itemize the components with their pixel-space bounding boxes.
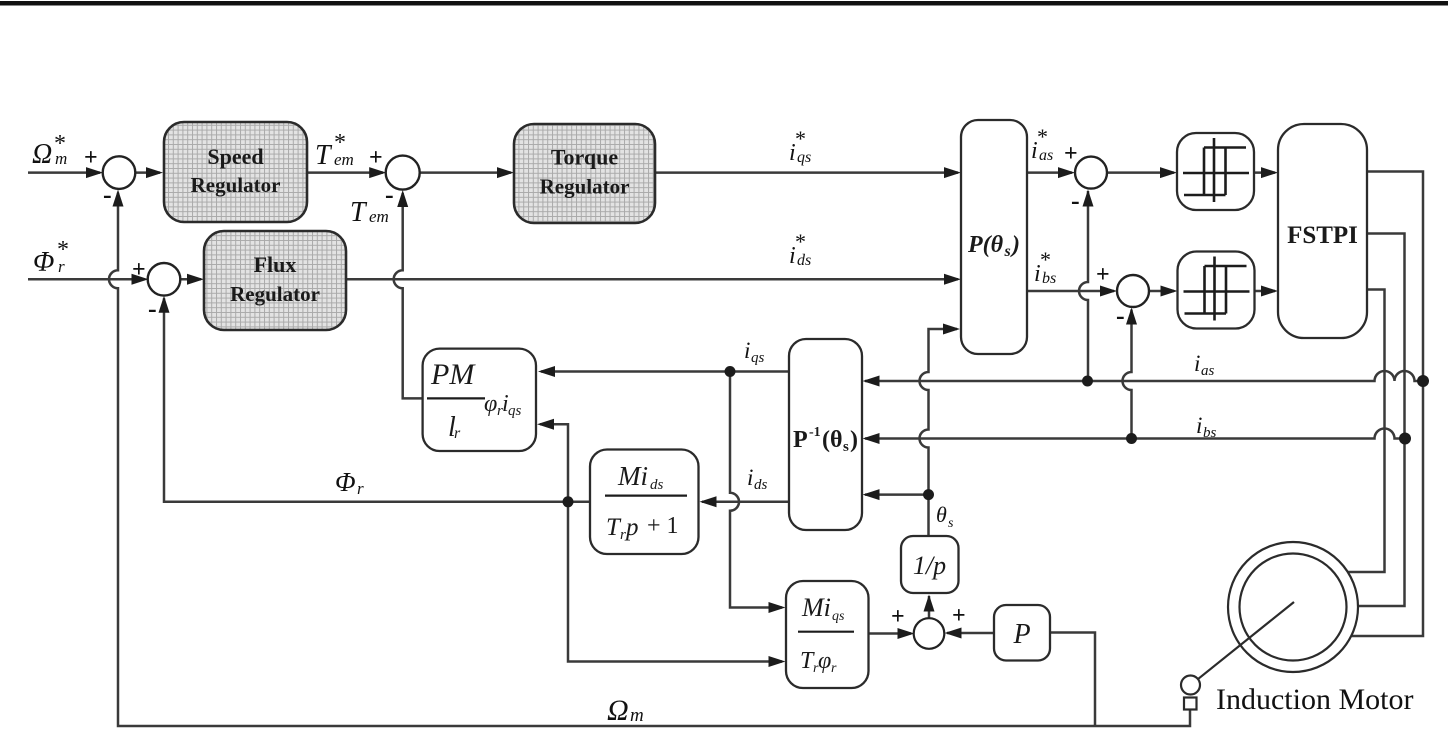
arrow theta-s into P-inv bbox=[863, 489, 880, 500]
svg-text:Speed: Speed bbox=[207, 144, 263, 169]
svg-text:Φ: Φ bbox=[33, 247, 54, 278]
wire FSTPI output 1 to motor bbox=[1350, 172, 1423, 637]
svg-text:+: + bbox=[132, 257, 146, 283]
wire speed regulator to sum2 bbox=[307, 171, 383, 174]
Miqs/(Tr phi-r) block bbox=[786, 581, 869, 688]
motor shaft bbox=[1198, 602, 1294, 679]
svg-text:s: s bbox=[1004, 243, 1011, 260]
svg-text:i: i bbox=[747, 465, 753, 490]
svg-text:qs: qs bbox=[751, 350, 765, 366]
wire sum-bs to hysteresis2 bbox=[1149, 290, 1174, 293]
svg-text:-: - bbox=[1116, 301, 1125, 330]
arrow ias-fb up into sum3 bbox=[1083, 190, 1094, 207]
svg-text:-: - bbox=[1071, 186, 1080, 215]
svg-text:*: * bbox=[795, 126, 806, 151]
wire sum1 to speed regulator bbox=[136, 171, 161, 174]
wire ibs feedback up to sum-bs with hop bbox=[1123, 310, 1132, 439]
junction dots bbox=[563, 366, 1430, 507]
wire flux regulator to P(theta-s) i-ds-star bbox=[346, 278, 958, 281]
wire sum4 to flux regulator bbox=[180, 278, 201, 281]
svg-text:p: p bbox=[624, 514, 639, 541]
summing junction sum2 bbox=[386, 156, 420, 190]
arrow ias into P-inv bbox=[863, 376, 880, 387]
svg-text:+: + bbox=[952, 603, 966, 629]
svg-text:*: * bbox=[1040, 247, 1051, 272]
node iqs bbox=[725, 366, 736, 377]
node theta-s bbox=[923, 489, 934, 500]
hysteresis comparator 1 bbox=[1177, 133, 1254, 210]
svg-text:ds: ds bbox=[650, 477, 664, 493]
arrow phi-r into Miqs block lower bbox=[769, 656, 786, 667]
svg-text:ds: ds bbox=[754, 477, 768, 493]
wire Tem feedback from PM block up to sum2 with hop bbox=[394, 193, 423, 398]
svg-text:Ω: Ω bbox=[32, 139, 52, 170]
arrow speed feedback up into sum1 bbox=[113, 190, 124, 207]
arrow into speed regulator bbox=[146, 167, 163, 178]
svg-text:*: * bbox=[1037, 124, 1048, 149]
svg-text:i: i bbox=[744, 338, 750, 363]
svg-text:s: s bbox=[843, 439, 849, 455]
wire ias feedback line with bumps bbox=[865, 371, 1423, 381]
svg-text:bs: bs bbox=[1203, 425, 1217, 441]
arrow into P(theta-s) middle bbox=[944, 274, 961, 285]
wire iqs from P-inv to PM block bbox=[541, 370, 789, 373]
arrow flux feedback up into sum4 bbox=[159, 296, 170, 313]
PM/lr block bbox=[423, 349, 536, 451]
svg-text:r: r bbox=[831, 661, 837, 676]
wire phi-r-star input bbox=[28, 278, 145, 281]
svg-text:+: + bbox=[1064, 141, 1078, 167]
arrow into sum-bs bbox=[1100, 286, 1117, 297]
svg-text:Flux: Flux bbox=[254, 252, 297, 277]
svg-text:+: + bbox=[84, 145, 98, 171]
arrow ibs into P-inv bbox=[863, 433, 880, 444]
svg-text:Mi: Mi bbox=[617, 461, 648, 491]
svg-text:r: r bbox=[357, 479, 364, 498]
svg-text:+: + bbox=[1096, 262, 1110, 288]
svg-text:bs: bs bbox=[1042, 270, 1056, 287]
arrow ibs-fb up into sum-bs bbox=[1126, 308, 1137, 325]
speed regulator block bbox=[164, 122, 307, 222]
svg-text:em: em bbox=[334, 150, 354, 169]
wire P block to sum5 bbox=[947, 632, 994, 635]
speed sensor square bbox=[1184, 698, 1197, 710]
P-inv(theta-s) block bbox=[789, 339, 862, 530]
summing junction sum4 flux bbox=[148, 263, 181, 296]
wire torque regulator to P(theta-s) i-qs-star bbox=[655, 171, 958, 174]
summing junction sum-bs bbox=[1117, 275, 1149, 307]
wire ias feedback up to sum3 with hop bbox=[1079, 191, 1088, 381]
P(theta-s) block U1 bbox=[961, 120, 1027, 354]
svg-text:ds: ds bbox=[797, 252, 811, 269]
wire ibs feedback line with bump bbox=[865, 429, 1405, 439]
arrow into flux regulator bbox=[187, 274, 204, 285]
arrow iqs into PM block bbox=[538, 366, 555, 377]
wire hysteresis2 to FSTPI bbox=[1255, 290, 1276, 293]
wire theta-s vertical from 1/p up to P(theta-s) with hops bbox=[920, 329, 958, 536]
svg-text:P: P bbox=[1012, 619, 1030, 650]
wire P(theta-s) to sum-bs i-bs-star bbox=[1027, 290, 1114, 293]
svg-text:i: i bbox=[1194, 351, 1200, 376]
wire omega-m-star input bbox=[28, 171, 100, 174]
arrow P into sum5 bbox=[945, 628, 962, 639]
arrow into P(theta-s) top bbox=[944, 167, 961, 178]
arrow into hysteresis1 bbox=[1160, 167, 1177, 178]
wire P(theta-s) to sum3 i-as-star bbox=[1027, 171, 1072, 174]
svg-text:r: r bbox=[454, 425, 461, 442]
arrow into sum1 bbox=[86, 167, 103, 178]
svg-text:-: - bbox=[385, 180, 394, 209]
arrow into FSTPI input1 bbox=[1261, 167, 1278, 178]
wire phi-r branch up into PM block bbox=[540, 424, 568, 502]
1/p block bbox=[901, 536, 959, 593]
svg-text:qs: qs bbox=[832, 609, 845, 624]
wire FSTPI output 2 to motor bbox=[1357, 234, 1405, 607]
svg-text:P(θ: P(θ bbox=[967, 232, 1004, 258]
svg-text:T: T bbox=[315, 140, 333, 171]
svg-text:i: i bbox=[1196, 413, 1202, 438]
arrow phi-r into PM block bbox=[537, 419, 554, 430]
svg-text:Φ: Φ bbox=[335, 467, 356, 497]
svg-text:+: + bbox=[891, 604, 905, 630]
wire hysteresis1 to FSTPI bbox=[1254, 171, 1275, 174]
svg-text:qs: qs bbox=[508, 403, 522, 419]
svg-text:m: m bbox=[55, 149, 67, 168]
svg-text:Torque: Torque bbox=[551, 145, 618, 170]
wire Omega-m from bottom line up into P block bbox=[1050, 633, 1095, 727]
summing junction sum3 as bbox=[1075, 157, 1107, 189]
svg-text:as: as bbox=[1201, 363, 1215, 379]
svg-text:-1: -1 bbox=[809, 425, 821, 440]
flux regulator block bbox=[204, 231, 346, 330]
node phi-r bbox=[563, 496, 574, 507]
arrow Tem up into sum2 bbox=[397, 190, 408, 207]
svg-text:s: s bbox=[948, 516, 954, 531]
arrow into 1/p bbox=[924, 595, 935, 612]
svg-text:*: * bbox=[795, 229, 806, 254]
arrowheads bbox=[86, 167, 1278, 667]
svg-text:(θ: (θ bbox=[822, 427, 843, 453]
wire theta-s branch into P-inv bbox=[865, 493, 929, 496]
wire flux feedback phi-r to sum4 bbox=[164, 298, 590, 502]
wire sum5 up to 1/p bbox=[928, 596, 931, 619]
arrow iqs into Miqs block upper bbox=[769, 602, 786, 613]
svg-text:+ 1: + 1 bbox=[647, 513, 679, 539]
summing junction sum5 bbox=[914, 618, 945, 649]
svg-text:m: m bbox=[630, 705, 644, 726]
svg-text:as: as bbox=[1039, 147, 1053, 164]
svg-text:Regulator: Regulator bbox=[191, 173, 281, 197]
svg-text:φ: φ bbox=[818, 648, 831, 674]
svg-text:PM: PM bbox=[430, 358, 476, 391]
wire FSTPI output 3 to motor bbox=[1348, 290, 1385, 573]
svg-text:-: - bbox=[148, 294, 157, 323]
arrow into hysteresis2 bbox=[1161, 286, 1178, 297]
Mids/(Trp+1) block bbox=[590, 450, 699, 555]
wire speed feedback bottom run and up to sum1 with hop bbox=[109, 193, 1190, 726]
wire ids from P-inv to Mids block bbox=[702, 501, 789, 504]
wire Miqs output to sum5 bbox=[869, 632, 912, 635]
arrow theta-s into P(theta-s) bottom bbox=[943, 324, 960, 335]
svg-text:Mi: Mi bbox=[801, 593, 831, 622]
summing junction sum1 bbox=[103, 156, 136, 189]
torque regulator block bbox=[514, 124, 655, 223]
node ias tap bbox=[1082, 376, 1093, 387]
arrow into sum4 bbox=[132, 274, 149, 285]
arrow Miqs into sum5 bbox=[898, 628, 915, 639]
svg-text:+: + bbox=[369, 145, 383, 171]
wire sum2 to torque regulator bbox=[420, 171, 511, 174]
arrow into FSTPI input2 bbox=[1261, 286, 1278, 297]
svg-text:Induction Motor: Induction Motor bbox=[1216, 683, 1413, 716]
wire sum3 to hysteresis1 bbox=[1107, 171, 1174, 174]
wire iqs branch down to Miqs block with hop bbox=[730, 372, 782, 608]
arrow into torque regulator bbox=[497, 167, 514, 178]
FSTPI inverter block bbox=[1278, 124, 1367, 338]
svg-text:): ) bbox=[1010, 232, 1020, 258]
svg-text:Regulator: Regulator bbox=[540, 175, 630, 199]
node ibs right bbox=[1399, 433, 1411, 445]
P block bbox=[994, 605, 1050, 661]
svg-text:-: - bbox=[103, 180, 112, 209]
svg-text:θ: θ bbox=[936, 502, 947, 527]
svg-text:Ω: Ω bbox=[607, 694, 629, 727]
svg-text:qs: qs bbox=[797, 149, 811, 166]
arrow into sum2 bbox=[369, 167, 386, 178]
arrow into sum3 bbox=[1058, 167, 1075, 178]
svg-text:): ) bbox=[850, 427, 858, 453]
svg-text:T: T bbox=[350, 197, 368, 228]
wire phi-r branch down to Miqs block bbox=[568, 502, 782, 662]
svg-text:FSTPI: FSTPI bbox=[1287, 222, 1358, 249]
hysteresis comparator 2 bbox=[1178, 252, 1255, 329]
node ias right bbox=[1417, 375, 1429, 387]
svg-text:em: em bbox=[369, 207, 389, 226]
node ibs tap bbox=[1126, 433, 1137, 444]
svg-text:P: P bbox=[793, 427, 808, 453]
induction motor bbox=[1181, 542, 1358, 710]
svg-text:1/p: 1/p bbox=[913, 551, 946, 580]
svg-text:φ: φ bbox=[484, 391, 497, 417]
svg-text:Regulator: Regulator bbox=[230, 282, 320, 306]
svg-text:r: r bbox=[58, 257, 65, 276]
arrow ids into Mids block bbox=[700, 496, 717, 507]
top border bar bbox=[0, 1, 1448, 6]
shaft end circle bbox=[1181, 676, 1200, 695]
